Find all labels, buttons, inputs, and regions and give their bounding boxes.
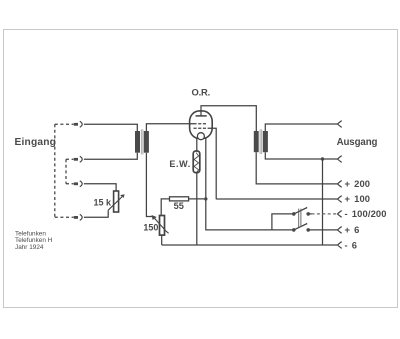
tube O.R. envelope xyxy=(190,111,213,139)
wire bias vertical to -6 rail xyxy=(322,159,324,245)
wire J3 to potentiometer top xyxy=(84,184,116,191)
rheostat R2 150 xyxy=(160,216,165,236)
wire J2 to T1 primary bottom xyxy=(84,153,137,160)
svg-text:- 100/200: - 100/200 xyxy=(345,208,387,219)
tube grid 1 xyxy=(194,123,208,125)
svg-text:55: 55 xyxy=(174,201,184,211)
input jack J3 xyxy=(66,183,74,185)
svg-text:+ 200: + 200 xyxy=(345,178,371,189)
input jack J1 xyxy=(55,123,74,125)
wire T1 secondary top to tube grid xyxy=(146,124,194,131)
switch S1 blade lower xyxy=(294,224,307,230)
tube filament dome xyxy=(197,133,204,140)
input jack J4 xyxy=(55,216,74,218)
svg-text:15 k: 15 k xyxy=(94,197,113,207)
wire rheostat bottom to -6 rail xyxy=(161,235,163,245)
input transformer T1 xyxy=(135,131,140,153)
svg-text:Jahr 1924: Jahr 1924 xyxy=(15,244,44,251)
wire filament left to barretter xyxy=(196,138,198,151)
svg-text:- 6: - 6 xyxy=(345,240,358,251)
wire barretter to -6 rail xyxy=(196,173,198,245)
terminal +200 xyxy=(338,181,342,188)
wire filament node to switch xyxy=(206,199,294,230)
svg-text:E.W.: E.W. xyxy=(169,159,190,169)
input bus inner dashed vertical wire xyxy=(65,159,67,184)
rheostat 150 wiper arrow xyxy=(152,215,157,220)
switch S1 gang bar xyxy=(299,209,301,227)
tube grid 2 xyxy=(194,127,208,129)
switch S1 contacts xyxy=(292,212,296,216)
input bus dashed vertical wire xyxy=(54,124,56,217)
barretter E.W. xyxy=(193,151,200,173)
wire T1 secondary bottom to rheostat wiper xyxy=(146,153,152,217)
terminal +6 xyxy=(338,227,342,234)
wire J4 to potentiometer wiper xyxy=(84,210,108,217)
wire switch to +6 terminal xyxy=(308,229,337,231)
wire J1 to T1 primary top xyxy=(84,124,137,131)
wire grid 2 to +100 terminal xyxy=(208,128,338,199)
input jack J2 xyxy=(66,158,74,160)
svg-text:+ 100: + 100 xyxy=(345,193,371,204)
wire switch to -100/200 terminal dashed xyxy=(308,213,311,215)
junction filament node xyxy=(204,197,207,200)
output transformer T2 xyxy=(254,131,259,152)
wire rheostat top to resistor 55 xyxy=(161,199,169,216)
wire resistor 55 to filament node xyxy=(189,198,206,200)
resistor R3 55 xyxy=(170,197,189,201)
wire anode to T2 primary top xyxy=(201,106,256,131)
svg-text:Ausgang: Ausgang xyxy=(337,137,378,148)
svg-text:O.R.: O.R. xyxy=(192,87,210,98)
wire T2 secondary bottom to output jack xyxy=(265,152,337,159)
terminal -6 xyxy=(338,242,342,249)
-6 rail wire xyxy=(162,244,338,246)
terminal -100/200 xyxy=(338,211,342,218)
svg-text:150: 150 xyxy=(143,223,158,233)
output jack terminal top xyxy=(338,121,342,128)
svg-text:Eingang: Eingang xyxy=(15,137,57,148)
wire T2 primary bottom to +200 terminal xyxy=(256,152,337,184)
output jack terminal bottom xyxy=(338,156,342,163)
wire switch upper feed xyxy=(272,214,294,230)
terminal +100 xyxy=(338,196,342,203)
wire T2 secondary top to output jack xyxy=(265,124,337,131)
tube anode plate xyxy=(196,115,207,117)
switch S1 blade upper xyxy=(294,208,307,214)
wire filament right down to node xyxy=(205,138,207,199)
junction output to bias vertical xyxy=(321,157,324,160)
svg-text:+ 6: + 6 xyxy=(345,224,360,235)
potentiometer R1 15k xyxy=(114,191,119,212)
